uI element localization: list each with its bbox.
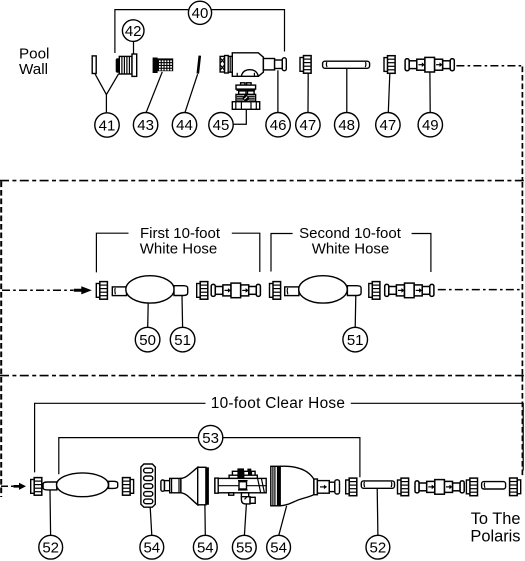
leader 51 [181,296,184,327]
svg-text:44: 44 [176,117,193,134]
svg-text:54: 54 [270,540,287,557]
part 54b funnel plate [198,467,206,505]
callout 54b [193,535,217,559]
part 54c outlet stub [329,482,335,491]
hose line to wall (dash-dot) [456,65,522,67]
part 45 neck [239,91,246,95]
clear hose swivel connector [415,480,464,495]
leader 55 [244,504,246,535]
svg-text:Wall: Wall [19,61,48,78]
svg-text:51: 51 [174,332,191,349]
part 44 o-ring [198,56,200,74]
left border middle+bottom sections (dashed) [0,182,2,498]
part 42 retainer plate [132,54,137,76]
bracket clear hose right [351,403,523,470]
clear hose pipe 1 [361,481,394,488]
svg-text:41: 41 [99,117,116,134]
svg-text:White Hose: White Hose [140,241,218,258]
callout 46 [266,113,290,137]
leader 54c [279,506,287,535]
svg-text:Pool: Pool [19,46,49,63]
part 55 elbow neck [241,493,248,497]
callout 54a [140,535,164,559]
part 55 lower plate [229,475,257,478]
part 46 body arch [241,70,258,77]
svg-text:48: 48 [338,117,355,134]
part 54b funnel plate edge (black) [206,467,209,505]
part 55 feed body [215,478,266,492]
part 46 stub 2 [275,60,283,69]
svg-text:To The: To The [471,510,521,528]
part 45 base [232,102,259,110]
hose 1 mid nut [197,282,208,300]
bracket 40 left segment [115,10,188,53]
bracket first hose left [96,233,128,272]
part 55 elbow side [250,497,255,503]
leader 44 [185,74,198,112]
callout 45 [209,113,233,137]
part 43 screen mesh [157,58,173,71]
hose 2 nut [270,282,281,300]
part 54a slotted hose cuff [141,464,155,507]
part 54b funnel cap [161,480,165,491]
callout 43 [133,113,157,137]
flow line out of second hose (dash-dot) [438,289,522,291]
bracket second hose right [412,234,431,273]
hose 2 mid nut [369,282,380,300]
flow arrow bottom [14,483,27,490]
part 47b hose nut [384,56,395,74]
clear hose pipe 2 [482,482,506,489]
svg-text:Polaris: Polaris [470,528,520,546]
bracket second hose left [271,234,293,272]
hose 1 left stem [112,287,126,296]
leader 52 [49,490,52,535]
leader 45 [234,109,247,124]
leader 47b [388,74,390,112]
svg-text:45: 45 [213,117,230,134]
part 45 top plate [236,85,256,89]
hose 1 nut [96,282,107,300]
callout 55 [232,535,256,559]
part 55 top block B (black) [247,469,251,472]
leader 46 [277,70,279,112]
part 54b funnel neck [165,481,170,491]
leader 43 [146,72,162,113]
svg-text:47: 47 [300,117,317,134]
leader 54a [150,507,152,535]
hose 1 swivel connector [211,283,260,298]
leader 50 [147,303,150,327]
part 55 upper plate [232,471,255,475]
leader 41 vee [95,74,118,95]
part 54b funnel barrel [170,478,181,492]
right border bottom section (dashed) [521,376,523,477]
part 54c outlet connector [317,481,329,494]
part 45 ball [243,95,249,101]
bracket clear hose left [35,403,206,472]
leader 52b [376,488,379,535]
svg-text:50: 50 [139,332,156,349]
callout 44 [172,113,196,137]
divider line 2 (dash-dot) [0,375,525,377]
hose 2 left stem [285,287,299,296]
part 46 stub 1 [263,59,274,70]
svg-text:54: 54 [197,540,214,557]
callout 53 [198,425,222,449]
svg-text:46: 46 [270,117,287,134]
leader 42 [133,42,135,55]
clear hose nut 1 [346,478,357,496]
part 52 float [57,473,109,497]
part 51b stem [347,286,361,296]
bracket 53 right [223,438,360,478]
part 46 washer 2 [225,56,229,74]
part 49 swivel connector [405,57,454,72]
callout 49 [418,113,442,137]
svg-text:42: 42 [125,23,142,40]
svg-text:White Hose: White Hose [312,241,390,258]
part 46 UWF body [232,53,263,77]
bracket 53 left [59,438,198,475]
leader 47 [307,74,309,113]
callout 48 [335,113,359,137]
part 52 nut [31,478,42,496]
part 55 bottom tab [229,493,234,495]
bracket 40 right segment [212,10,285,52]
part 54c cuff plate [271,466,280,506]
leader 51b [354,296,357,327]
svg-text:47: 47 [380,117,397,134]
bracket first hose right [232,233,260,272]
hose 2 swivel connector [385,283,434,298]
float stem right [109,481,118,488]
part 55 elbow body [241,497,250,504]
svg-text:43: 43 [137,117,154,134]
clear hose nut 3 [466,478,477,496]
divider line 1 (dash-dot) [0,180,525,182]
svg-text:55: 55 [236,540,253,557]
float right nut [123,478,134,496]
callout 47 [296,113,320,137]
part 46 end cap [282,58,286,71]
svg-text:53: 53 [202,430,219,447]
callout 42 [122,20,144,42]
svg-text:52: 52 [42,540,59,557]
callout 54c [267,535,291,559]
callout 52 [39,535,63,559]
clear hose nut 4 [510,478,521,496]
svg-text:52: 52 [370,540,387,557]
part 46 hatch washer [220,56,225,72]
part 41 restrictor disk [92,56,96,74]
leader 49 [429,72,431,112]
flow line into first hose (dash-dot) [2,289,74,291]
part 45 mid body [236,94,256,101]
svg-text:54: 54 [143,540,160,557]
svg-text:49: 49 [422,117,439,134]
callout 47b [376,113,400,137]
part 50 float [126,276,174,303]
part 54b funnel flare [181,467,198,505]
callout 51b [343,327,368,352]
callout 50 [135,327,160,352]
callout 52b [366,535,390,559]
callout 41 [95,113,119,137]
part 55 knob [239,482,247,489]
part 54c bell housing [280,466,314,506]
part 54c outlet cap [335,480,340,494]
flow line into clear hose (dash-dot) [1,485,14,487]
part 48 extension pipe [323,61,370,68]
part 54c neck flange [314,479,318,495]
float stem left [43,482,57,490]
flow arrow [74,286,92,294]
right border middle section (dashed) [521,182,523,375]
leader 48 [346,68,348,112]
callout 51 [170,327,195,352]
part 55 top block A (black) [237,468,244,471]
leader 54b [204,505,206,535]
right border top section (dashed) [521,67,523,181]
part 46 washer 3 [228,56,232,72]
part 50b float [299,276,348,303]
part 51 stem [174,286,188,296]
svg-text:40: 40 [192,5,209,22]
callout 40 [188,1,211,24]
part 42 spring end (black) [116,58,120,72]
part 47 hose nut [300,56,311,74]
svg-text:First 10-foot: First 10-foot [140,225,221,242]
part 45 valve top tabs [241,83,245,85]
part 42 spring coil [119,56,132,74]
svg-text:51: 51 [347,332,364,349]
svg-text:10-foot Clear Hose: 10-foot Clear Hose [211,395,346,412]
clear hose nut 2 [398,478,409,496]
part 43 screen tab [153,58,158,74]
